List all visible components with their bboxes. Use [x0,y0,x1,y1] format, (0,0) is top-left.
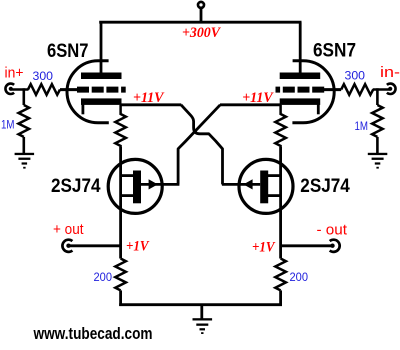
wire left plate lead [100,22,103,74]
svg-text:+1V: +1V [252,239,276,255]
svg-text:in-: in- [380,64,400,81]
wire tee down right [376,88,379,105]
wire 1M to ground [22,137,25,153]
resistor R6 (right cathode) [275,105,286,147]
V2 plate bar [280,73,321,80]
JFET Q2 2SJ74 [222,159,293,213]
svg-text:6SN7: 6SN7 [313,40,356,62]
wire cross (right cathode to Q1 gate) [178,105,220,185]
V2 cathode bar [280,98,321,105]
wire tee down [22,88,25,105]
wire right plate lead [299,22,302,74]
resistor R1 300 [28,84,60,95]
wire grid lead [60,88,78,91]
input jack J2 in- [387,84,396,94]
svg-text:6SN7: 6SN7 [47,40,89,62]
V2 cathode tick [317,105,320,115]
svg-text:www.tubecad.com: www.tubecad.com [33,324,153,343]
svg-text:+11V: +11V [133,90,165,106]
resistor R3 (left cathode) [115,105,126,147]
output jack J3 + out [62,240,72,252]
B+ supply terminal [198,2,204,8]
resistor R7 200 [115,259,126,291]
svg-text:in+: in+ [5,64,24,81]
svg-text:1M: 1M [1,118,15,132]
wire - out [280,244,332,247]
svg-text:+300V: +300V [182,25,221,41]
wire right channel vertical [279,147,282,259]
wire B+ lead [200,8,203,22]
V1 cathode bar [81,98,122,105]
ground (left input) [15,153,34,169]
wire grid lead right [323,88,341,91]
wire left cathode [120,103,181,106]
wire right cathode [220,103,281,106]
svg-text:2SJ74: 2SJ74 [51,175,101,197]
svg-text:200: 200 [290,270,309,284]
wire R8 to bottom bus [279,290,282,306]
wire + out [69,244,122,247]
ground (center) [193,318,213,334]
wire top bus [99,21,301,24]
wire 1M to ground right [376,137,379,153]
svg-text:2SJ74: 2SJ74 [300,175,350,197]
resistor R2 1M [19,105,30,137]
output jack J4 - out [330,240,340,252]
V1 cathode tick [82,105,85,115]
svg-text:300: 300 [33,69,54,83]
svg-text:300: 300 [345,69,366,83]
resistor R5 1M [372,105,383,137]
wire cross hop (left cathode to Q2 gate) [181,105,223,185]
tube V1 6SN7 envelope [67,61,109,123]
ground (right input) [368,153,388,169]
svg-text:+11V: +11V [242,90,274,106]
resistor R8 200 [275,259,286,291]
JFET Q1 2SJ74 [108,159,179,213]
wire bottom bus [119,303,282,306]
V2 grid (dashed) [276,87,325,93]
tube V2 6SN7 envelope [292,61,334,123]
svg-text:- out: - out [317,221,348,238]
svg-text:1M: 1M [355,119,369,133]
svg-text:200: 200 [94,270,113,284]
wire left channel vertical [119,147,122,259]
svg-text:+ out: + out [53,221,84,238]
resistor R4 300 [341,84,373,95]
V1 plate bar [81,73,122,80]
wire ground stem [200,305,203,319]
input jack J1 in+ [5,84,14,94]
wire jack to tee [12,88,29,91]
svg-text:+1V: +1V [126,239,150,255]
wire jack to tee right [373,88,390,91]
wire R7 to bottom bus [119,290,122,306]
V1 grid (dashed) [77,87,126,93]
